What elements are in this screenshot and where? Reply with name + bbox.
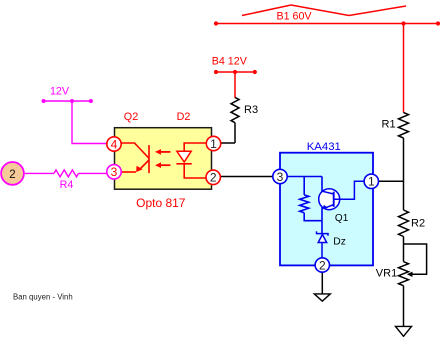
svg-text:R1: R1 (382, 119, 396, 131)
svg-text:VR1: VR1 (376, 268, 397, 280)
svg-text:R3: R3 (244, 104, 258, 116)
svg-text:Opto 817: Opto 817 (136, 196, 186, 210)
svg-text:R2: R2 (411, 218, 425, 230)
svg-text:3: 3 (277, 170, 284, 184)
svg-text:12V: 12V (50, 86, 70, 98)
svg-text:1: 1 (368, 175, 375, 189)
svg-text:2: 2 (319, 258, 326, 272)
svg-text:R4: R4 (60, 179, 74, 191)
svg-text:4: 4 (111, 137, 118, 151)
svg-text:3: 3 (111, 165, 118, 179)
svg-text:B1 60V: B1 60V (276, 11, 312, 23)
svg-text:B4 12V: B4 12V (212, 56, 248, 68)
svg-text:2: 2 (210, 171, 217, 185)
svg-text:Dz: Dz (333, 237, 346, 248)
svg-text:Q1: Q1 (335, 213, 349, 224)
svg-text:2: 2 (9, 169, 15, 181)
svg-text:Ban quyen - Vinh: Ban quyen - Vinh (13, 292, 73, 301)
svg-text:KA431: KA431 (307, 141, 341, 153)
svg-text:Q2: Q2 (124, 111, 138, 123)
svg-text:1: 1 (210, 137, 217, 151)
svg-text:D2: D2 (177, 111, 191, 123)
